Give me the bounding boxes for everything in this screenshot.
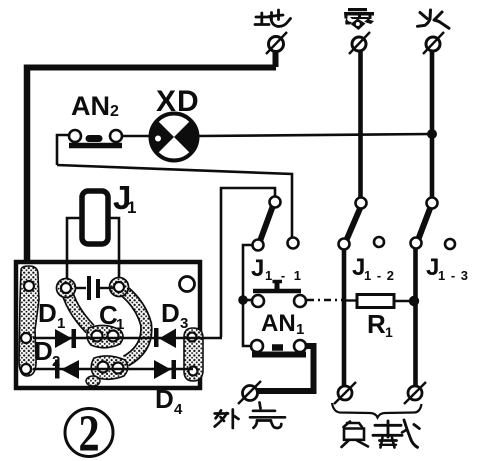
PCB pad blob row1: [87, 325, 123, 347]
capacitor C1: [75, 276, 113, 300]
figure number 2: [65, 409, 113, 457]
svg-text:D: D: [34, 336, 53, 366]
label 负载: [342, 420, 420, 448]
svg-text:1: 1: [127, 198, 136, 217]
terminal load right: [404, 382, 426, 404]
wire junction to NO contact: [243, 304, 251, 346]
pushbutton AN2: [69, 130, 122, 146]
relay contact J1-3: [411, 198, 456, 250]
wire J1-1 to AN1: [243, 245, 253, 296]
resistor R1: [357, 295, 394, 308]
junction dot R1 output: [409, 296, 419, 306]
pad banana top: [61, 283, 71, 293]
wire 零 line: [358, 51, 363, 197]
wire lamp to fire line: [199, 134, 432, 136]
diode D2: [55, 360, 79, 380]
wire diode row1: [33, 337, 222, 339]
pad horseshoe top: [114, 282, 124, 292]
wire bypass to J1-1: [57, 165, 292, 238]
pad mid left: [21, 333, 31, 343]
label 地: [255, 10, 291, 26]
pushbutton AN1 NO contact: [251, 340, 306, 355]
mechanical link dashed: [307, 299, 342, 301]
label 火: [418, 10, 450, 28]
wire diode row2: [33, 368, 193, 370]
wire R1 to J1-3: [394, 300, 414, 302]
svg-text:1 - 1: 1 - 1: [265, 268, 304, 283]
svg-text:D: D: [155, 384, 174, 414]
pad bottom left: [21, 364, 31, 374]
PCB trace left strip: [19, 266, 39, 376]
PCB trace right strip: [184, 328, 203, 381]
wire link to R1: [344, 299, 357, 301]
PCB module: [16, 262, 200, 388]
pad row2 b: [113, 363, 124, 374]
label 零: [344, 8, 374, 30]
wire coil right: [110, 218, 119, 282]
PCB trace bottom patch: [86, 376, 100, 386]
mounting hole: [180, 277, 195, 292]
wire J1-3 output: [413, 249, 418, 388]
svg-text:2: 2: [110, 103, 119, 120]
svg-text:AN: AN: [261, 310, 296, 337]
label 外壳: [215, 403, 285, 429]
wire PCB to J1-1 top contact: [221, 188, 275, 337]
wire AN1 to shell terminal: [256, 346, 314, 391]
wire 火 line: [430, 51, 435, 198]
pad right row2: [189, 367, 198, 376]
diode D4: [154, 360, 176, 379]
wire AN2 to lamp: [122, 135, 151, 138]
wire left bus: [24, 65, 31, 264]
wire J1-2 output: [342, 250, 347, 388]
pad right row1: [188, 333, 197, 342]
terminal load left: [334, 382, 356, 404]
relay coil J1: [82, 191, 108, 244]
svg-text:J: J: [251, 255, 264, 282]
diode D1: [55, 329, 76, 348]
relay contact J1-2: [339, 198, 385, 250]
wire top ground bus: [24, 65, 276, 71]
pad row1 b: [108, 331, 119, 342]
svg-text:2: 2: [78, 406, 99, 461]
PCB trace banana: [57, 279, 91, 330]
terminal 外壳: [238, 381, 261, 404]
PCB pad blob row2: [91, 356, 128, 379]
svg-text:1: 1: [57, 315, 65, 332]
svg-text:R: R: [367, 309, 386, 339]
svg-text:1: 1: [296, 321, 304, 338]
diode D3: [154, 328, 176, 348]
wire junction to NC contact: [243, 299, 252, 302]
svg-text:AN: AN: [71, 91, 110, 121]
lamp XD: [151, 114, 198, 161]
pushbutton AN1 NC contact: [252, 282, 306, 308]
terminal 零: [349, 32, 370, 54]
svg-text:3: 3: [180, 315, 188, 332]
terminal 地: [266, 32, 287, 67]
brace load: [332, 403, 422, 418]
terminal 火: [423, 32, 444, 54]
relay contact J1-1: [253, 197, 299, 251]
PCB trace horseshoe: [110, 278, 147, 362]
svg-text:D: D: [161, 298, 180, 328]
pad top left: [24, 281, 34, 291]
svg-text:1 - 2: 1 - 2: [364, 268, 395, 283]
junction dot AN1 top: [238, 295, 248, 305]
svg-text:1: 1: [116, 316, 124, 333]
svg-text:1 - 3: 1 - 3: [438, 268, 469, 283]
junction dot lamp to fire: [427, 129, 437, 139]
wire coil left: [67, 218, 80, 284]
svg-text:D: D: [38, 298, 57, 328]
svg-text:4: 4: [174, 401, 183, 418]
wire AN2 left loop: [57, 135, 69, 165]
pad row1 a: [92, 331, 103, 342]
svg-text:1: 1: [385, 324, 393, 340]
pad row2 a: [98, 362, 109, 373]
